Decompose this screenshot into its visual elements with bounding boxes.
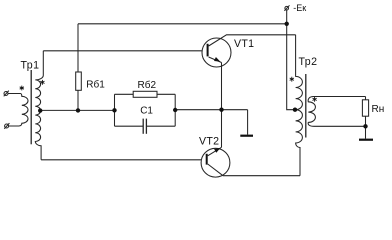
svg-text:Rб1: Rб1 bbox=[86, 79, 105, 91]
svg-text:-Ек: -Ек bbox=[293, 3, 306, 13]
svg-text:Rб2: Rб2 bbox=[138, 79, 157, 91]
svg-text:VT2: VT2 bbox=[199, 136, 219, 148]
svg-text:Тр1: Тр1 bbox=[21, 60, 40, 72]
svg-text:C1: C1 bbox=[140, 106, 153, 117]
svg-text:VT1: VT1 bbox=[234, 38, 254, 50]
svg-text:Тр2: Тр2 bbox=[299, 56, 318, 68]
svg-text:Rн: Rн bbox=[372, 104, 385, 115]
